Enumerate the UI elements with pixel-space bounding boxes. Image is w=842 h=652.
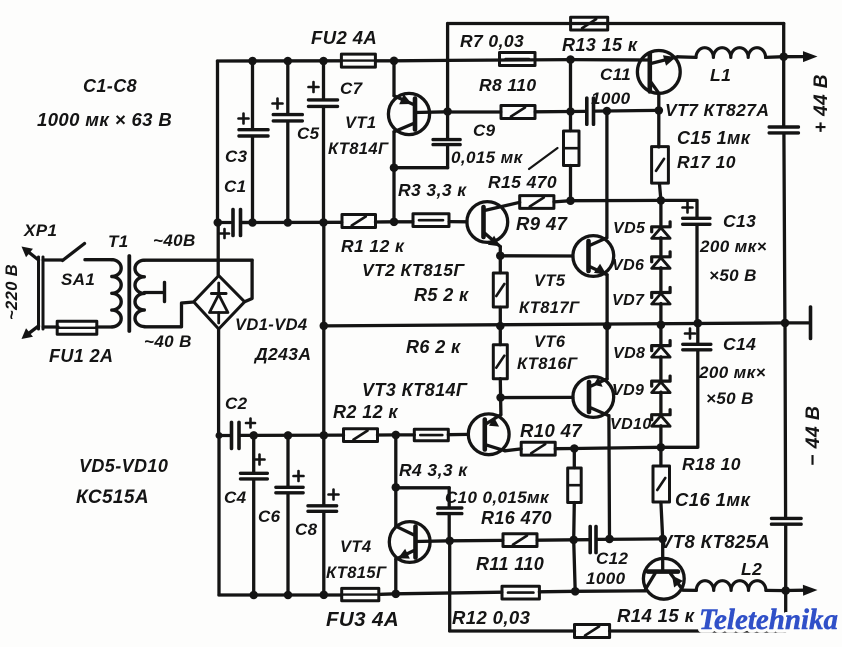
wire xyxy=(659,357,662,381)
wire xyxy=(450,539,503,543)
wire xyxy=(678,55,697,59)
wire xyxy=(396,486,449,489)
svg-text:R13 15 к: R13 15 к xyxy=(562,35,638,55)
capacitor C11 xyxy=(571,110,586,113)
svg-text:C2: C2 xyxy=(225,394,248,413)
wire xyxy=(555,447,574,451)
transistor VT8 xyxy=(643,558,684,599)
capacitor C15 xyxy=(769,125,798,128)
zener VD9 xyxy=(652,376,670,386)
zener VD7 xyxy=(652,288,670,298)
node xyxy=(320,431,329,440)
wire mid rail xyxy=(324,323,785,326)
svg-text:VT8 КТ825А: VT8 КТ825А xyxy=(660,531,770,552)
wire xyxy=(574,540,576,592)
svg-text:L2: L2 xyxy=(741,559,762,579)
node xyxy=(657,443,666,452)
svg-text:C11: C11 xyxy=(600,65,631,84)
wire xyxy=(659,304,662,346)
resistor R14 xyxy=(575,625,610,638)
node R2-R4 xyxy=(392,431,401,440)
wire xyxy=(574,447,661,448)
node mid rail start xyxy=(320,322,329,331)
node xyxy=(570,444,579,453)
wire xyxy=(375,59,394,62)
terminal 0V xyxy=(785,321,809,324)
resistor R16 xyxy=(573,449,576,469)
wire left vertical bottom xyxy=(217,436,220,596)
svg-text:FU1 2А: FU1 2А xyxy=(49,346,113,366)
capacitor C3 xyxy=(251,61,254,129)
wire xyxy=(659,426,662,448)
svg-text:R2 12 к: R2 12 к xyxy=(333,402,398,422)
svg-text:VT2 КТ815Г: VT2 КТ815Г xyxy=(362,260,465,280)
capacitor C16 xyxy=(772,517,802,520)
node xyxy=(284,57,293,66)
node xyxy=(605,535,614,544)
wire xyxy=(766,55,784,59)
svg-text:R15 470: R15 470 xyxy=(488,172,557,192)
wire VT8 collector xyxy=(575,589,646,593)
wire top line xyxy=(448,22,784,25)
transistor VT2 xyxy=(467,202,508,243)
node xyxy=(566,107,575,116)
node xyxy=(571,587,580,596)
capacitor C10 xyxy=(448,488,451,508)
svg-text:VD8: VD8 xyxy=(613,345,645,362)
node VT2 emitter xyxy=(496,251,505,260)
node xyxy=(779,52,788,61)
svg-text:R12 0,03: R12 0,03 xyxy=(452,607,531,628)
wire xyxy=(85,258,113,261)
wire VT7 base xyxy=(571,58,650,62)
wire xyxy=(392,168,395,222)
svg-text:R7 0,03: R7 0,03 xyxy=(460,31,524,51)
node xyxy=(603,107,612,116)
svg-text:T1: T1 xyxy=(108,232,129,251)
wire xyxy=(97,325,113,328)
svg-text:R5 2 к: R5 2 к xyxy=(414,285,469,305)
node ~220V input arrow top xyxy=(26,250,39,260)
wire bridge plus up xyxy=(217,223,220,276)
wire xyxy=(683,589,697,593)
wire center column xyxy=(322,222,325,435)
wire xyxy=(254,433,344,437)
svg-text:КТ815Г: КТ815Г xyxy=(326,564,387,582)
svg-text:200 мк×: 200 мк× xyxy=(699,237,767,256)
svg-text:200 мк×: 200 мк× xyxy=(698,363,766,382)
svg-text:C6: C6 xyxy=(258,507,281,526)
svg-text:VD10: VD10 xyxy=(610,416,652,433)
fuse FU1 xyxy=(57,321,97,334)
wire xyxy=(394,435,397,487)
svg-text:C10 0,015мк: C10 0,015мк xyxy=(445,488,550,507)
svg-text:1000: 1000 xyxy=(591,89,631,108)
wire VT6 base xyxy=(501,396,573,400)
wire xyxy=(659,200,662,226)
svg-text:C15 1мк: C15 1мк xyxy=(677,128,751,148)
zener VD10 xyxy=(652,410,670,420)
resistor R7 xyxy=(500,53,536,66)
svg-text:C5: C5 xyxy=(297,124,320,143)
node xyxy=(319,57,328,66)
svg-text:C9: C9 xyxy=(473,121,496,140)
wire left vertical top xyxy=(216,61,219,223)
wire xyxy=(376,220,395,223)
svg-text:SA1: SA1 xyxy=(61,270,95,289)
capacitor C4 xyxy=(252,435,255,472)
resistor R9 xyxy=(520,196,554,209)
wire right rail top xyxy=(782,24,785,127)
node xyxy=(248,57,257,66)
node xyxy=(657,321,666,330)
svg-text:C1-C8: C1-C8 xyxy=(83,76,137,96)
resistor R12 xyxy=(502,586,539,599)
svg-text:VT1: VT1 xyxy=(345,114,376,132)
zener VD5 xyxy=(652,222,670,232)
svg-text:L1: L1 xyxy=(710,65,731,85)
inductor L2 xyxy=(696,581,766,591)
svg-text:~40 В: ~40 В xyxy=(144,332,192,351)
node xyxy=(392,483,401,492)
node xyxy=(284,431,293,440)
wire xyxy=(539,590,575,594)
svg-text:R10 47: R10 47 xyxy=(520,420,583,441)
resistor R15 xyxy=(564,131,580,166)
wire xyxy=(43,325,58,328)
node xyxy=(319,218,328,227)
wire xyxy=(396,592,502,594)
svg-text:C16 1мк: C16 1мк xyxy=(675,489,751,510)
transistor VT6 xyxy=(573,377,614,418)
capacitor C1 xyxy=(218,221,231,224)
wire xyxy=(396,433,415,436)
node R1-R3 xyxy=(390,218,399,227)
node xyxy=(569,536,578,545)
node VT4 emitter bottom xyxy=(392,590,401,599)
node xyxy=(249,431,258,440)
resistor R10 xyxy=(521,442,555,455)
svg-text:VT3 КТ814Г: VT3 КТ814Г xyxy=(362,380,468,400)
wire xyxy=(394,59,448,63)
svg-text:VD1-VD4: VD1-VD4 xyxy=(235,316,308,334)
node VT1 collector xyxy=(390,163,399,172)
wire xyxy=(659,268,662,292)
node xyxy=(496,393,505,402)
wire xyxy=(659,392,662,414)
transformer T1 primary xyxy=(112,260,121,327)
wire mid bus left xyxy=(242,221,342,224)
node VT4 base xyxy=(445,537,454,546)
capacitor C8 xyxy=(322,435,325,505)
node R15 top xyxy=(566,55,575,64)
svg-text:1000: 1000 xyxy=(586,569,626,588)
node VT8 base node xyxy=(658,535,667,544)
transistor VT1 xyxy=(388,93,429,134)
zener VD6 xyxy=(652,252,670,262)
transistor VT7 xyxy=(637,51,680,94)
svg-text:0,015 мк: 0,015 мк xyxy=(451,148,524,167)
svg-text:Д243А: Д243А xyxy=(253,344,311,364)
svg-text:VD5: VD5 xyxy=(613,220,646,237)
node ~220V input arrow bottom xyxy=(26,326,39,336)
node xyxy=(603,322,612,331)
capacitor C5 xyxy=(286,61,289,114)
connector XP1 xyxy=(37,257,40,329)
resistor R11 xyxy=(503,534,537,547)
arrow -44V out xyxy=(786,589,805,593)
svg-text:R1 12 к: R1 12 к xyxy=(341,236,405,256)
wire R15 pointer xyxy=(529,148,558,169)
svg-text:VD6: VD6 xyxy=(612,257,644,274)
node VT1 base xyxy=(443,107,452,116)
capacitor C13 xyxy=(661,200,697,217)
node xyxy=(781,319,790,328)
resistor R17 xyxy=(657,110,660,147)
resistor R4 xyxy=(414,429,448,441)
wire xyxy=(571,199,661,203)
node xyxy=(781,586,790,595)
svg-text:C13: C13 xyxy=(723,211,756,231)
svg-text:C12: C12 xyxy=(596,549,629,568)
resistor R18 xyxy=(659,447,662,466)
svg-text:R8 110: R8 110 xyxy=(479,75,537,95)
wire xyxy=(448,58,571,62)
inductor L1 xyxy=(696,48,766,58)
svg-text:VD5-VD10: VD5-VD10 xyxy=(79,456,168,476)
node xyxy=(655,106,664,115)
svg-text:КТ814Г: КТ814Г xyxy=(328,140,389,158)
node C2 right xyxy=(216,432,223,439)
svg-text:R17 10: R17 10 xyxy=(677,152,736,172)
svg-text:×50 В: ×50 В xyxy=(706,389,754,408)
svg-text:VD9: VD9 xyxy=(612,382,644,399)
wire top bus xyxy=(218,59,342,63)
svg-text:R4 3,3 к: R4 3,3 к xyxy=(399,460,468,480)
wire base drop xyxy=(448,541,451,631)
wire VT5 emitter xyxy=(605,275,608,326)
wire xyxy=(569,166,572,201)
wire xyxy=(379,592,396,596)
wire xyxy=(394,220,413,223)
transformer T1 core xyxy=(127,256,131,331)
resistor R2 xyxy=(344,429,378,442)
svg-text:C14: C14 xyxy=(723,334,756,354)
svg-text:VT5: VT5 xyxy=(534,272,566,290)
arrow +44V out xyxy=(784,55,805,58)
svg-text:×50 В: ×50 В xyxy=(709,266,757,285)
wire VT6 emitter xyxy=(605,326,608,379)
wire xyxy=(448,110,501,113)
wire right rail 3 xyxy=(783,323,787,518)
svg-text:− 44 В: − 44 В xyxy=(802,406,824,466)
switch SA1 xyxy=(63,244,85,261)
svg-text:~220 В: ~220 В xyxy=(3,264,21,320)
svg-text:КТ816Г: КТ816Г xyxy=(517,355,578,373)
wire VT5 collector xyxy=(605,111,608,238)
svg-text:C3: C3 xyxy=(225,147,248,166)
capacitor C14 xyxy=(696,323,699,344)
fuse FU3 xyxy=(342,588,379,600)
svg-text:C1: C1 xyxy=(224,177,247,196)
wire R14 line xyxy=(450,629,575,632)
wire bottom bus xyxy=(219,593,342,596)
svg-text:FU3 4А: FU3 4А xyxy=(326,608,399,631)
transformer T1 center tap xyxy=(144,291,162,294)
wire R13 drop xyxy=(446,24,449,112)
resistor R3 xyxy=(413,214,449,227)
wire VT6 collector xyxy=(607,416,611,539)
transistor VT4 xyxy=(389,522,430,563)
node xyxy=(248,218,257,227)
node xyxy=(284,591,293,600)
svg-text:VT4: VT4 xyxy=(340,538,371,556)
wire right rail 4 xyxy=(784,525,787,631)
wire xyxy=(144,302,193,327)
svg-text:VD7: VD7 xyxy=(612,292,645,309)
node xyxy=(320,591,329,600)
bridge rectifier VD1-VD4 xyxy=(194,276,245,329)
node C1 left xyxy=(214,218,223,227)
transistor VT3 xyxy=(468,414,509,455)
wire xyxy=(43,258,63,261)
wire xyxy=(554,201,571,202)
svg-text:R16 470: R16 470 xyxy=(481,508,552,528)
resistor R1 xyxy=(342,215,376,228)
capacitor C6 xyxy=(286,435,289,486)
resistor R6 xyxy=(499,326,502,345)
svg-text:R14 15 к: R14 15 к xyxy=(617,605,696,626)
capacitor C2 xyxy=(219,434,230,437)
svg-text:C8: C8 xyxy=(295,520,318,539)
node xyxy=(657,196,666,205)
wire xyxy=(659,238,662,257)
capacitor C12 xyxy=(574,538,589,541)
svg-text:~40В: ~40В xyxy=(153,231,196,250)
capacitor C7 xyxy=(322,61,325,99)
transformer T1 secondary xyxy=(135,260,144,326)
svg-text:R6 2 к: R6 2 к xyxy=(406,337,461,357)
svg-text:+ 44 В: + 44 В xyxy=(811,74,832,133)
resistor R8 xyxy=(501,106,535,119)
svg-text:КТ817Г: КТ817Г xyxy=(519,299,580,317)
svg-text:C7: C7 xyxy=(340,79,364,98)
svg-text:VT7 КТ827А: VT7 КТ827А xyxy=(665,100,769,120)
wire VT5 base xyxy=(500,254,573,257)
svg-text:R18 10: R18 10 xyxy=(682,454,741,474)
capacitor C9 xyxy=(446,112,449,140)
svg-text:XP1: XP1 xyxy=(23,221,57,240)
zener VD8 xyxy=(652,341,670,351)
wire xyxy=(610,629,786,632)
wire right rail 2 xyxy=(784,133,785,323)
node xyxy=(249,591,258,600)
resistor R13 xyxy=(571,17,608,30)
wire R15 column xyxy=(569,60,572,131)
wire xyxy=(766,589,786,592)
wire xyxy=(245,260,253,302)
svg-text:R11 110: R11 110 xyxy=(476,554,544,574)
resistor R5 xyxy=(499,256,502,273)
svg-text:FU2 4А: FU2 4А xyxy=(311,27,377,48)
svg-text:Teletehnika: Teletehnika xyxy=(699,603,838,636)
svg-text:C4: C4 xyxy=(224,488,247,507)
svg-text:R3 3,3 к: R3 3,3 к xyxy=(398,180,467,200)
svg-text:КС515А: КС515А xyxy=(76,487,149,508)
transistor VT5 xyxy=(573,236,614,277)
node xyxy=(496,322,505,331)
node VT1 emitter top xyxy=(390,57,399,66)
node xyxy=(284,218,293,227)
node xyxy=(566,196,575,205)
fuse FU2 xyxy=(341,54,375,67)
wire xyxy=(378,433,396,436)
svg-text:VT6: VT6 xyxy=(534,333,566,351)
node xyxy=(694,319,703,328)
svg-text:R9 47: R9 47 xyxy=(516,213,569,234)
svg-text:1000 мк × 63 В: 1000 мк × 63 В xyxy=(37,109,172,130)
wire bridge minus down xyxy=(217,329,220,436)
wire xyxy=(144,259,252,262)
